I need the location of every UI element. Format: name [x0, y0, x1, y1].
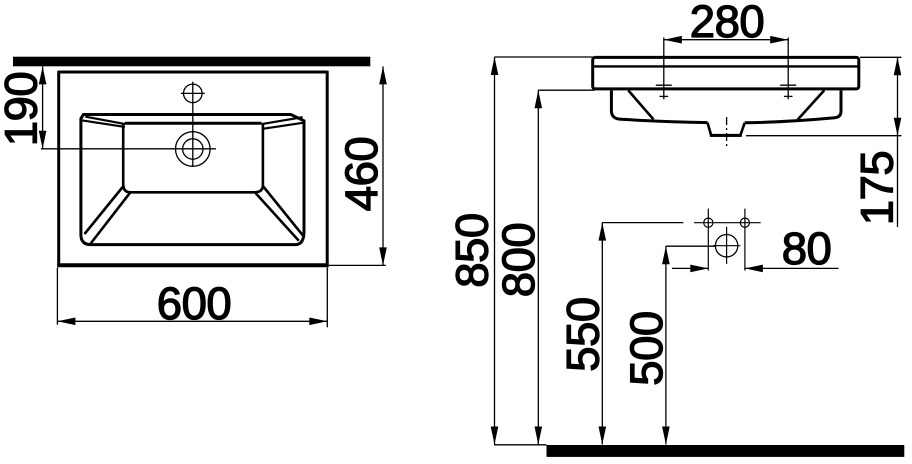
faucet hole centerline right (280 ext) [787, 38, 789, 100]
basin outer outline [81, 115, 304, 245]
svg-text:500: 500 [621, 311, 672, 385]
dim 850: arrows [491, 57, 499, 75]
basin bottom-left wall wedge [85, 186, 124, 235]
svg-text:280: 280 [690, 0, 764, 47]
vertical centerline faucet->drain [192, 82, 194, 167]
basin inner wall diagonal left [628, 90, 653, 119]
vertical centerline / ext left hole [707, 209, 709, 271]
faucet crosshair horizontal tick [181, 92, 205, 94]
basin bottom-right wall wedge [263, 187, 304, 237]
dim 80: left segment with right-pointing arrow [672, 267, 708, 269]
dim 175: bottom extension line [746, 135, 902, 137]
faucet hole centerline left (280 ext) [663, 38, 665, 100]
floor bar (bottom thick bar) [547, 445, 905, 457]
dim 175: arrows [894, 57, 902, 75]
dim 800: dimension line [537, 90, 539, 444]
svg-text:460: 460 [336, 137, 387, 211]
deck inner line [594, 65, 859, 67]
drain box (trap) [708, 123, 745, 136]
vertical centerline / ext right hole [744, 209, 746, 271]
basin inner rectangle (floor) [125, 122, 262, 125]
drain outlet vertical tick [726, 227, 728, 264]
dim 175: top extension line [860, 56, 902, 58]
drain dashed centerline [726, 117, 728, 147]
dim 460: arrows [379, 66, 387, 84]
basin top-left rim wedge [85, 117, 125, 124]
dim 460: dimension line [382, 66, 384, 265]
svg-text:80: 80 [782, 223, 832, 274]
drain outlet circle [715, 235, 737, 257]
drain outer circle [176, 132, 211, 167]
dim 550: dimension line [601, 223, 603, 445]
dim 280: dimension line [664, 39, 788, 41]
dim 190: arrows [39, 66, 47, 84]
dim 190: dimension line [42, 66, 44, 148]
faucet hole circle (top view) [184, 84, 203, 103]
dim 850: dimension line [494, 57, 496, 445]
dim 600: arrows [57, 318, 75, 326]
svg-text:600: 600 [157, 278, 231, 329]
basin inner wall diagonal right [798, 90, 824, 119]
dim 600: extension lines [56, 268, 58, 325]
dim 800: top extension line [538, 89, 594, 91]
dim 500: dimension line [665, 246, 667, 444]
wall bar (top thick bar) [13, 57, 370, 67]
dim 850: top extension line [495, 56, 593, 58]
mounting holes centerline [694, 222, 761, 224]
svg-text:550: 550 [557, 297, 608, 371]
svg-text:175: 175 [851, 151, 902, 225]
deck outline [593, 57, 859, 89]
sink outer rectangle [59, 71, 328, 74]
dim 500: top extension line [666, 245, 716, 247]
dim 175: dimension line with overrun [897, 57, 899, 227]
dim 800: arrows [535, 90, 543, 108]
dim 550: arrows [599, 223, 607, 241]
dim 460: extension line bottom [329, 264, 386, 266]
dim 190: extension line from wall to drain centerline [41, 148, 216, 150]
svg-text:800: 800 [493, 223, 544, 297]
faucet hole tick left [656, 84, 672, 86]
dim 280: arrows [664, 36, 682, 44]
dim 550: top extension line [602, 222, 683, 224]
faucet hole plus left [660, 95, 669, 97]
svg-text:190: 190 [0, 72, 46, 146]
mounting hole right [740, 218, 749, 227]
drain outlet horizontal tick [713, 245, 740, 247]
mounting hole left [704, 218, 713, 227]
dim 500: arrows [662, 246, 670, 264]
dim 600: dimension line [57, 320, 327, 322]
faucet hole tick right [780, 84, 796, 86]
svg-text:850: 850 [447, 213, 498, 287]
dim 80: right segment with left-pointing arrow [745, 267, 839, 269]
basin body left [611, 90, 707, 122]
basin top-right rim wedge [262, 117, 303, 124]
floor thin line [494, 444, 547, 446]
drain inner circle [183, 139, 203, 159]
faucet hole plus right [784, 95, 793, 97]
basin body right [745, 90, 841, 122]
